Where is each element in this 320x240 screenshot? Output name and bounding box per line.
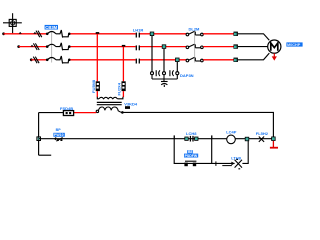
node tap L2 <box>122 45 126 47</box>
wire branch2 down <box>212 139 235 164</box>
svg-text:LCH8: LCH8 <box>186 131 197 136</box>
fuse FU2X4 <box>122 81 126 91</box>
cable slash marks L1 <box>36 31 42 38</box>
CAD crosshair cursor <box>3 13 22 33</box>
node grip left rail <box>37 137 41 141</box>
svg-text:LTH8: LTH8 <box>231 155 241 160</box>
grip LCH8 left <box>184 137 188 141</box>
pushbutton PSDFW <box>184 161 196 166</box>
contactor DL2M pole 1 <box>186 31 203 35</box>
lamp LC4P <box>227 135 236 144</box>
fuse block FSD4B <box>63 111 73 116</box>
node branch1 left tick <box>174 135 175 138</box>
motor lead V <box>238 46 268 48</box>
grip node L1 <box>150 32 154 36</box>
svg-text:PSDFW: PSDFW <box>185 154 198 158</box>
label M0CHP (selected) <box>286 42 302 47</box>
node branch2 tick <box>211 135 212 138</box>
wire control rung <box>39 138 274 140</box>
wire fuse1 to transformer <box>96 91 98 97</box>
wire L2 after breaker <box>70 46 135 48</box>
svg-text:M0CHP: M0CHP <box>287 43 301 47</box>
svg-text:V3KD4: V3KD4 <box>124 101 138 106</box>
grip node rail corner <box>271 137 275 141</box>
cable slash marks L2 <box>33 43 39 50</box>
wire drop to suppressor 2 <box>163 49 165 72</box>
label PW10 (selected) <box>53 133 64 137</box>
grip node L2 <box>162 44 166 48</box>
motor lead U <box>238 34 269 41</box>
junction marker L2a <box>30 45 33 47</box>
transformer V3KD4 primary <box>97 97 123 99</box>
wire L1 after breaker <box>70 33 135 35</box>
contactor DL2M pole 2 <box>186 44 203 48</box>
contactor DL2M pole 3 <box>186 57 203 61</box>
wire L2 to motor <box>203 46 233 48</box>
suppressor DAP3N <box>151 70 179 87</box>
wire fuse2 to transformer <box>122 91 124 97</box>
contactor DL2M mechanical link <box>194 30 196 63</box>
breaker CB3M pole 2 <box>46 43 71 50</box>
label PSDFW (selected) <box>184 150 198 158</box>
wire drop to suppressor 1 <box>151 36 153 72</box>
wire fuse drop 1 <box>96 34 98 82</box>
label CB3M (selected) <box>45 25 58 30</box>
svg-text:DL2M: DL2M <box>189 27 201 32</box>
svg-text:PW10: PW10 <box>54 133 64 137</box>
wire L3 phase <box>30 57 47 64</box>
grip node T3 <box>234 58 238 62</box>
fuse FU5M8 <box>96 81 100 91</box>
grip node T1 <box>234 32 238 36</box>
contact LH1R pole 2 <box>136 45 139 50</box>
svg-text:DAP3N: DAP3N <box>180 73 194 78</box>
contact LCH8 <box>190 136 193 142</box>
svg-text:FU2X4: FU2X4 <box>117 82 122 95</box>
wire drop to suppressor 3 <box>176 62 178 72</box>
breaker CB3M pole 1 <box>46 30 71 37</box>
breaker CB3M pole 3 <box>46 56 71 63</box>
junction marker L1b <box>33 32 36 34</box>
wire L1 phase <box>2 31 47 38</box>
overload LTH8 contact <box>235 140 249 169</box>
wire L1 to motor <box>203 33 233 35</box>
terminal FL5H2 <box>259 137 264 142</box>
wire secondary right to rail <box>121 111 273 136</box>
contact LH1R pole 1 <box>136 33 139 38</box>
ground terminal (red) <box>270 141 278 148</box>
wire L2 to contactor <box>140 46 186 48</box>
svg-text:FSD4B: FSD4B <box>60 106 73 111</box>
breaker CB3M mechanical link <box>51 32 53 63</box>
pressure switch PW10 <box>54 137 63 141</box>
wire left rail <box>38 113 40 156</box>
contact LH1R pole 3 <box>136 59 139 64</box>
svg-text:LH1R: LH1R <box>133 27 144 32</box>
wire branch1 loop <box>174 139 212 164</box>
junction marker L1a <box>19 32 22 34</box>
wire L2 phase <box>17 43 46 50</box>
motor lead W <box>238 53 269 60</box>
wire secondary left (red) <box>74 112 97 114</box>
wire block to left rail <box>39 112 64 114</box>
node tap L1 <box>96 32 100 34</box>
svg-text:CB3M: CB3M <box>45 25 57 30</box>
grip node lamp right <box>245 137 249 141</box>
transformer V3KD4 core <box>97 102 122 104</box>
overload LTH8 actuator <box>216 161 235 166</box>
cable slash marks L3 <box>33 57 39 64</box>
svg-text:FU5M8: FU5M8 <box>91 79 96 93</box>
wire L1 to contactor <box>140 33 186 35</box>
svg-text:FL5H2: FL5H2 <box>256 131 269 136</box>
motor M0CHP <box>268 40 281 53</box>
grip LCH8 right <box>194 137 198 141</box>
node marker under V3KD4 <box>125 106 130 109</box>
transformer V3KD4 secondary <box>96 107 121 113</box>
grip node T2 <box>234 44 238 48</box>
wire L3 after breaker <box>70 59 135 61</box>
svg-text:BP: BP <box>56 128 62 132</box>
wire L3 to motor <box>203 59 233 61</box>
grip node L3 <box>175 58 179 62</box>
wire L3 to contactor <box>140 59 186 61</box>
svg-text:LC4P: LC4P <box>226 130 237 135</box>
motor rotation arrow <box>272 53 277 60</box>
wire bottom stub <box>39 154 52 156</box>
wire fuse drop 2 <box>122 47 124 82</box>
